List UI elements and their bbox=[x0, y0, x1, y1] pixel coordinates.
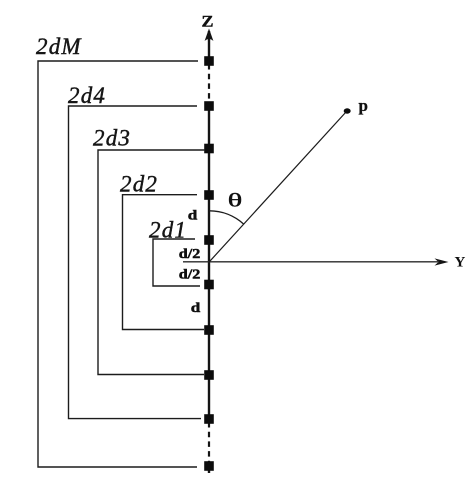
bracket 2dM outline bbox=[38, 61, 198, 467]
svg-text:2d3: 2d3 bbox=[93, 126, 131, 151]
array element marker m9 bbox=[204, 414, 214, 424]
svg-text:d/2: d/2 bbox=[179, 247, 201, 262]
axis Z shaft solid top segment bbox=[208, 31, 210, 61]
bracket 2d1 outline bbox=[153, 239, 200, 286]
svg-text:p: p bbox=[359, 96, 368, 115]
array element marker m10 bbox=[204, 461, 214, 471]
angle theta arc bbox=[209, 211, 243, 224]
svg-text:d: d bbox=[188, 209, 198, 224]
svg-text:d: d bbox=[191, 301, 201, 316]
array element marker m8 bbox=[204, 370, 214, 380]
array element marker m3 bbox=[204, 144, 214, 154]
axis Y arrowhead bbox=[435, 258, 449, 265]
array element marker m1 bbox=[204, 56, 214, 66]
array element marker m2 bbox=[204, 101, 214, 111]
axis Z dashed segment lower bbox=[208, 422, 210, 462]
array element marker m7 bbox=[204, 325, 214, 335]
svg-text:d/2: d/2 bbox=[179, 268, 201, 283]
axis Z bottom stub bbox=[208, 464, 210, 473]
svg-text:θ: θ bbox=[228, 191, 243, 212]
axis Z arrowhead bbox=[205, 29, 214, 42]
line from origin to observation point P bbox=[209, 112, 346, 262]
svg-text:2d2: 2d2 bbox=[120, 172, 158, 197]
svg-text:Y: Y bbox=[455, 255, 466, 271]
axis Y line bbox=[183, 261, 438, 263]
bracket 2d3 outline bbox=[98, 150, 205, 375]
array element marker m6 bbox=[204, 280, 214, 290]
bracket 2d2 outline bbox=[123, 195, 205, 330]
bracket 2d4 outline bbox=[69, 106, 202, 419]
svg-text:Z: Z bbox=[202, 14, 214, 31]
svg-text:2dM: 2dM bbox=[36, 34, 82, 59]
svg-text:2d4: 2d4 bbox=[68, 83, 106, 108]
svg-text:2d1: 2d1 bbox=[149, 218, 187, 243]
axis Z main solid segment bbox=[208, 106, 210, 419]
observation point P dot bbox=[344, 108, 351, 113]
array element marker m5 bbox=[204, 235, 214, 245]
array element marker m4 bbox=[204, 190, 214, 200]
axis Z dashed segment upper bbox=[208, 64, 210, 104]
